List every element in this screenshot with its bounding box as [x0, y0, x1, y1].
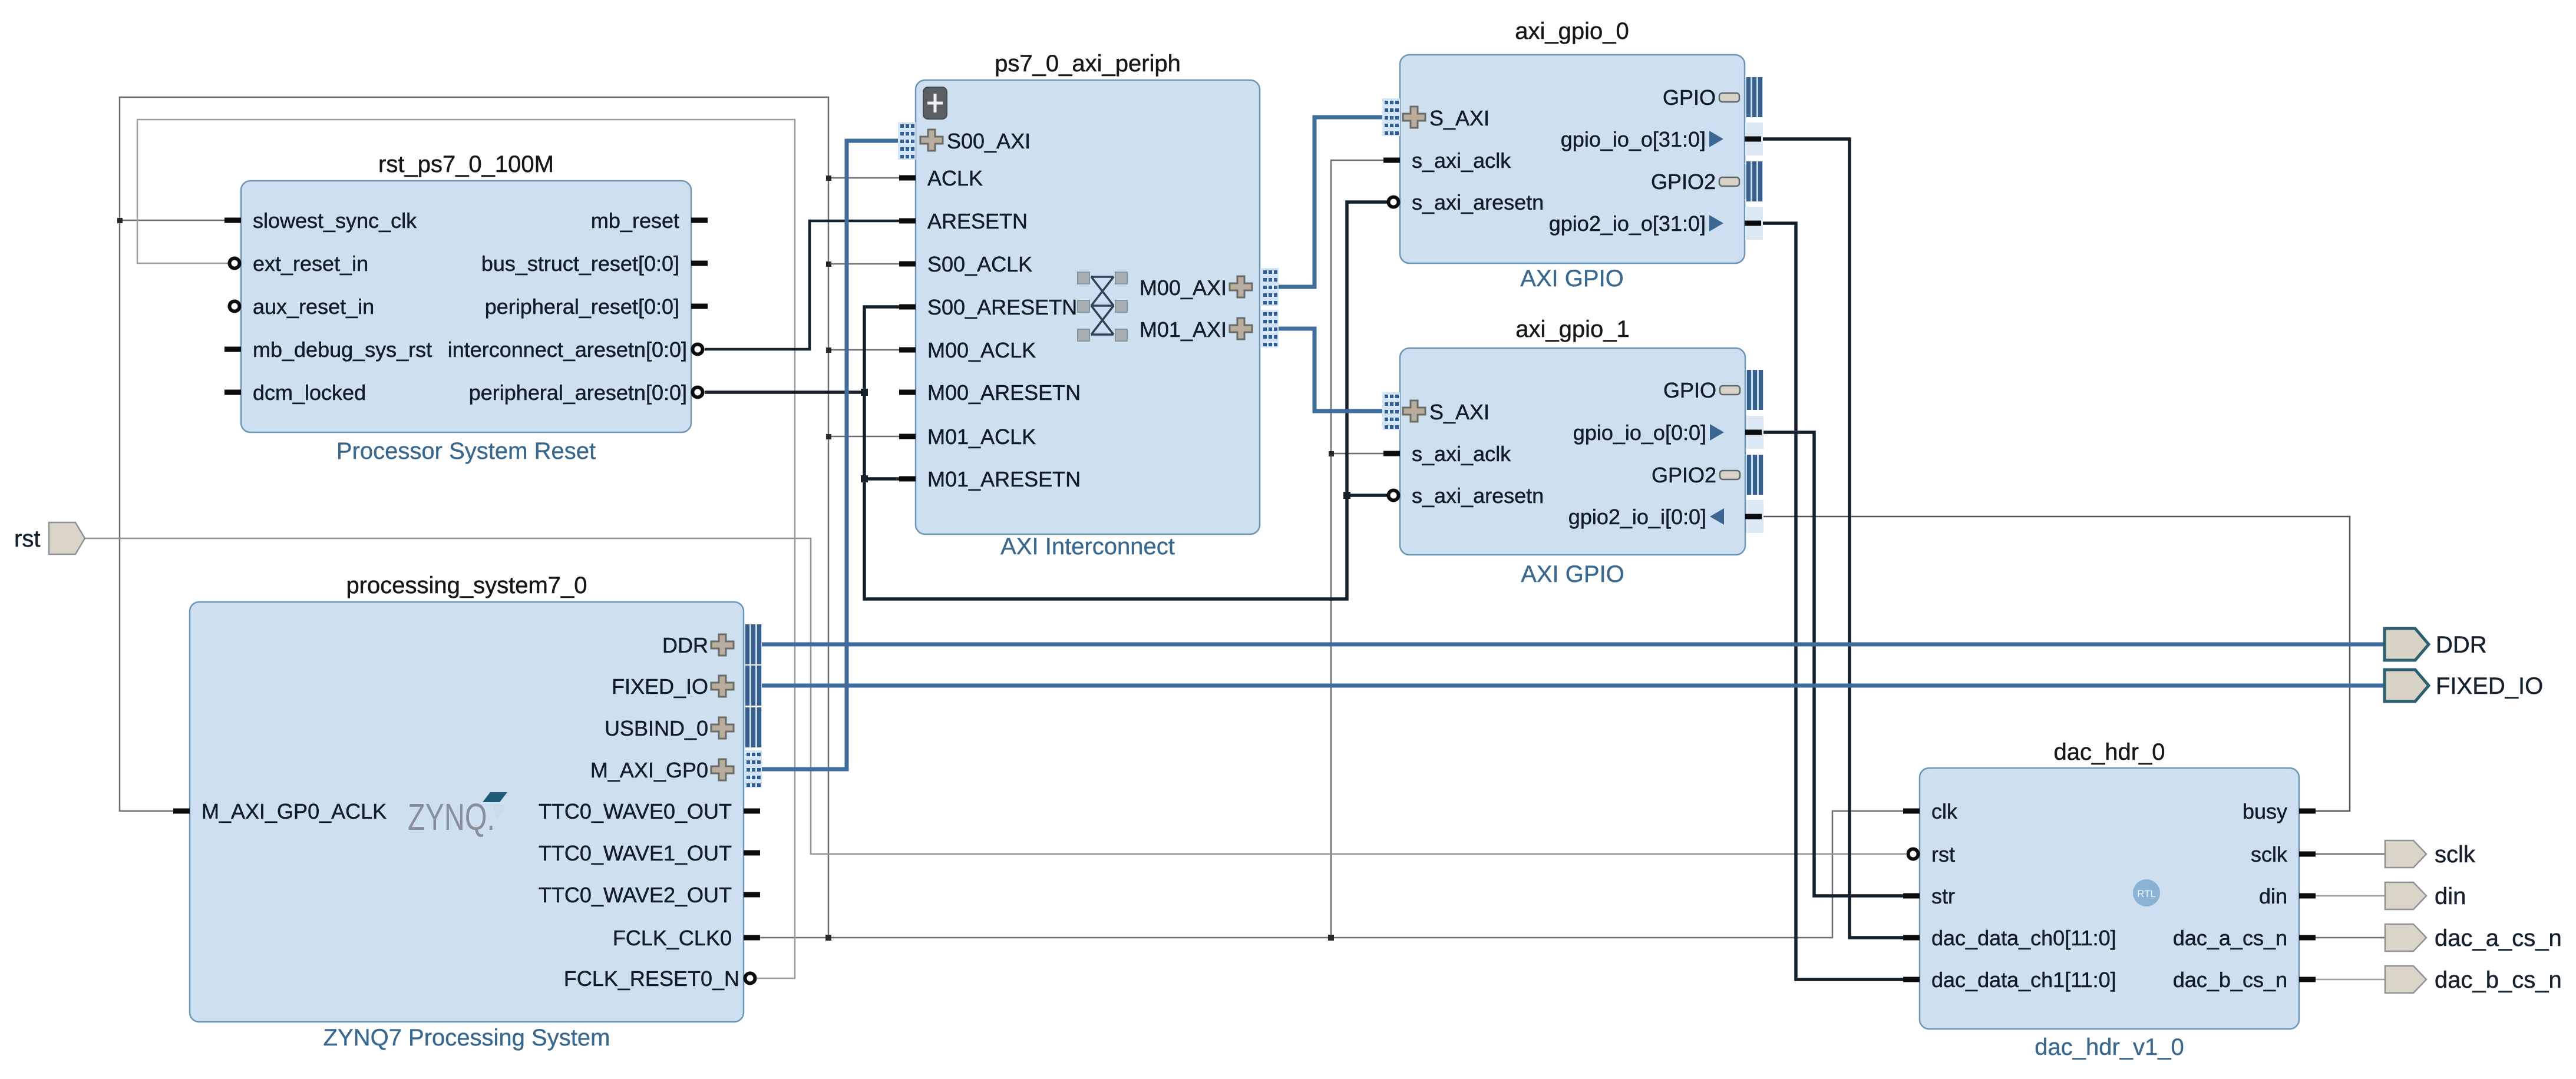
wire dac_b_cs_n: [2316, 979, 2385, 981]
svg-text:s_axi_aclk: s_axi_aclk: [1412, 442, 1511, 466]
port din: [2385, 882, 2466, 909]
svg-text:ARESETN: ARESETN: [927, 209, 1028, 233]
svg-text:GPIO: GPIO: [1663, 378, 1716, 402]
svg-text:gpio_io_o[31:0]: gpio_io_o[31:0]: [1561, 127, 1706, 151]
pin mb_debug_sys_rst: [224, 337, 432, 362]
pin dac_a_cs_n: [2173, 926, 2316, 950]
svg-text:peripheral_reset[0:0]: peripheral_reset[0:0]: [485, 294, 679, 319]
svg-text:dac_a_cs_n: dac_a_cs_n: [2435, 925, 2562, 951]
block axi_gpio_1 body: [1400, 316, 1745, 587]
pin axi_gpio_1 GPIO2: [1652, 455, 1763, 495]
pin M_AXI_GP0_ACLK: [173, 799, 387, 823]
pin FCLK_CLK0: [613, 926, 760, 950]
pin axi_gpio_1 gpio_io_o[0:0]: [1573, 416, 1763, 449]
wire gpio_io_o[31:0] to dac_data_ch0 net: [1745, 139, 1903, 938]
svg-text:S00_AXI: S00_AXI: [947, 129, 1031, 153]
svg-text:FIXED_IO: FIXED_IO: [2436, 673, 2543, 699]
pin M00_ARESETN: [899, 380, 1081, 405]
svg-text:mb_debug_sys_rst: mb_debug_sys_rst: [253, 337, 432, 362]
pin TTC0_WAVE1_OUT: [539, 841, 760, 865]
button plus ps7_0_axi_periph: [923, 87, 947, 119]
svg-text:peripheral_aresetn[0:0]: peripheral_aresetn[0:0]: [469, 380, 687, 405]
wire gpio2_io_o[31:0] to dac_data_ch1 net: [1745, 223, 1903, 979]
svg-text:M00_ACLK: M00_ACLK: [927, 338, 1036, 362]
svg-text:AXI GPIO: AXI GPIO: [1521, 561, 1624, 587]
pin peripheral_reset[0:0]: [485, 294, 708, 319]
svg-text:interconnect_aresetn[0:0]: interconnect_aresetn[0:0]: [448, 337, 687, 362]
block dac_hdr_0 body: [1920, 739, 2299, 1060]
pin interconnect_aresetn[0:0]: [448, 337, 703, 362]
pin dac str: [1903, 884, 1955, 908]
pin TTC0_WAVE0_OUT: [539, 799, 760, 823]
svg-text:S_AXI: S_AXI: [1429, 106, 1490, 130]
wire gpio_io_o[0:0] to str net: [1746, 432, 1903, 896]
port DDR: [2385, 628, 2487, 660]
svg-text:gpio2_io_i[0:0]: gpio2_io_i[0:0]: [1568, 505, 1706, 529]
svg-text:busy: busy: [2243, 799, 2287, 823]
pin dac rst: [1908, 842, 1956, 866]
svg-text:gpio_io_o[0:0]: gpio_io_o[0:0]: [1573, 421, 1706, 445]
wire rst net: [85, 538, 1906, 854]
svg-text:rst: rst: [1931, 842, 1955, 866]
svg-text:DDR: DDR: [662, 633, 708, 657]
svg-text:RTL: RTL: [2137, 888, 2156, 899]
wire FCLK_CLK0 clock net: [120, 97, 1903, 938]
svg-text:dac_b_cs_n: dac_b_cs_n: [2173, 968, 2287, 992]
pin S00_ARESETN: [899, 295, 1077, 319]
pin M_AXI_GP0: [590, 750, 762, 788]
svg-text:rst_ps7_0_100M: rst_ps7_0_100M: [378, 151, 554, 177]
svg-text:M01_ARESETN: M01_ARESETN: [927, 467, 1081, 491]
svg-text:dac_b_cs_n: dac_b_cs_n: [2435, 967, 2562, 993]
svg-text:sclk: sclk: [2251, 842, 2288, 866]
pin M01_AXI: [1140, 310, 1279, 347]
svg-text:FCLK_RESET0_N: FCLK_RESET0_N: [564, 967, 739, 991]
svg-text:s_axi_aresetn: s_axi_aresetn: [1412, 190, 1544, 214]
svg-text:rst: rst: [14, 526, 40, 552]
svg-text:FCLK_CLK0: FCLK_CLK0: [613, 926, 732, 950]
bus DDR: [762, 643, 2385, 647]
svg-text:AXI GPIO: AXI GPIO: [1520, 266, 1624, 292]
svg-text:dac_hdr_v1_0: dac_hdr_v1_0: [2035, 1034, 2184, 1060]
pin S00_ACLK: [899, 252, 1032, 276]
pin axi_gpio_0 GPIO: [1663, 77, 1763, 117]
wire peripheral_aresetn net: [705, 202, 1387, 599]
pin axi_gpio_1 s_axi_aresetn: [1389, 484, 1544, 508]
bus M_AXI_GP0 to S00_AXI: [762, 141, 899, 769]
pin ARESETN: [899, 209, 1028, 233]
pin dac din: [2259, 884, 2316, 908]
logo ZYNQ: [408, 792, 507, 838]
port FIXED_IO: [2385, 670, 2543, 701]
pin mb_reset: [591, 208, 708, 233]
wire dac_a_cs_n: [2316, 937, 2385, 939]
svg-text:ps7_0_axi_periph: ps7_0_axi_periph: [995, 51, 1181, 77]
svg-text:sclk: sclk: [2435, 842, 2476, 868]
svg-text:AXI Interconnect: AXI Interconnect: [1000, 534, 1175, 560]
svg-text:str: str: [1931, 884, 1955, 908]
pin dac_data_ch0[11:0]: [1903, 926, 2116, 950]
svg-text:M_AXI_GP0_ACLK: M_AXI_GP0_ACLK: [202, 799, 387, 823]
port dac_a_cs_n: [2385, 924, 2562, 951]
block ps7_0_axi_periph body: [916, 51, 1260, 560]
svg-text:s_axi_aresetn: s_axi_aresetn: [1412, 484, 1544, 508]
svg-text:axi_gpio_0: axi_gpio_0: [1515, 18, 1629, 44]
pin slowest_sync_clk: [224, 208, 417, 233]
icon RTL: [2133, 879, 2160, 906]
wire busy to gpio2_io_i net: [1762, 517, 2350, 811]
svg-text:GPIO2: GPIO2: [1651, 170, 1716, 194]
pin axi_gpio_1 GPIO: [1663, 370, 1763, 410]
svg-text:S_AXI: S_AXI: [1429, 400, 1490, 424]
pin FCLK_RESET0_N: [564, 967, 755, 991]
pin dac_b_cs_n: [2173, 968, 2316, 992]
svg-text:clk: clk: [1931, 799, 1958, 823]
pin dac sclk: [2251, 842, 2316, 866]
port dac_b_cs_n: [2385, 966, 2562, 993]
wire FCLK_RESET0_N to ext_reset_in net: [137, 120, 795, 978]
pin axi_gpio_0 s_axi_aresetn: [1389, 190, 1544, 214]
pin dcm_locked: [224, 380, 366, 405]
pin axi_gpio_0 s_axi_aclk: [1383, 148, 1511, 173]
pin axi_gpio_0 gpio_io_o[31:0]: [1561, 123, 1763, 155]
svg-text:dac_a_cs_n: dac_a_cs_n: [2173, 926, 2287, 950]
svg-text:S00_ARESETN: S00_ARESETN: [927, 295, 1077, 319]
svg-text:din: din: [2259, 884, 2287, 908]
bus FIXED_IO: [762, 684, 2385, 688]
svg-text:dac_data_ch0[11:0]: dac_data_ch0[11:0]: [1931, 926, 2116, 950]
svg-text:FIXED_IO: FIXED_IO: [612, 674, 708, 699]
wire interconnect_aresetn net: [705, 221, 899, 349]
svg-text:S00_ACLK: S00_ACLK: [927, 252, 1032, 276]
bus M01_AXI to axi_gpio_1 S_AXI: [1279, 329, 1383, 411]
svg-text:TTC0_WAVE0_OUT: TTC0_WAVE0_OUT: [539, 799, 732, 823]
pin axi_gpio_1 s_axi_aclk: [1383, 442, 1511, 466]
svg-text:slowest_sync_clk: slowest_sync_clk: [253, 208, 417, 233]
svg-text:gpio2_io_o[31:0]: gpio2_io_o[31:0]: [1549, 211, 1706, 236]
pin peripheral_aresetn[0:0]: [469, 380, 703, 405]
pin aux_reset_in: [230, 294, 375, 319]
pin DDR: [662, 624, 762, 664]
svg-text:dcm_locked: dcm_locked: [253, 380, 366, 405]
junction dots clock net: [117, 176, 1334, 941]
pin TTC0_WAVE2_OUT: [539, 883, 760, 907]
svg-text:dac_data_ch1[11:0]: dac_data_ch1[11:0]: [1931, 968, 2116, 992]
wire sclk: [2316, 853, 2385, 855]
pin axi_gpio_1 gpio2_io_i[0:0]: [1568, 500, 1763, 533]
pin ext_reset_in: [230, 251, 369, 276]
block axi_gpio_0 body: [1400, 18, 1745, 292]
pin S00_AXI: [898, 122, 1031, 160]
svg-text:processing_system7_0: processing_system7_0: [346, 572, 587, 598]
port rst: [14, 522, 85, 554]
pin axi_gpio_0 S_AXI: [1382, 98, 1490, 136]
pin dac clk: [1903, 799, 1958, 823]
pin USBIND_0: [605, 707, 762, 747]
svg-text:dac_hdr_0: dac_hdr_0: [2053, 739, 2165, 765]
pin dac busy: [2243, 799, 2316, 823]
svg-text:s_axi_aclk: s_axi_aclk: [1412, 148, 1511, 173]
svg-text:M00_AXI: M00_AXI: [1140, 276, 1227, 300]
svg-text:M01_AXI: M01_AXI: [1140, 317, 1227, 342]
pin M00_ACLK: [899, 338, 1036, 362]
svg-text:Processor System Reset: Processor System Reset: [336, 438, 596, 464]
svg-text:GPIO: GPIO: [1663, 85, 1716, 110]
svg-text:aux_reset_in: aux_reset_in: [253, 294, 374, 319]
pin axi_gpio_0 gpio2_io_o[31:0]: [1549, 207, 1763, 240]
port sclk: [2385, 840, 2476, 868]
svg-text:M01_ACLK: M01_ACLK: [927, 425, 1036, 449]
svg-text:ext_reset_in: ext_reset_in: [253, 251, 368, 276]
svg-text:ACLK: ACLK: [927, 166, 983, 190]
svg-text:USBIND_0: USBIND_0: [605, 716, 708, 740]
svg-text:din: din: [2435, 883, 2466, 909]
pin M01_ACLK: [899, 425, 1036, 449]
pin axi_gpio_0 GPIO2: [1651, 161, 1763, 201]
block processing_system7_0 body: [190, 572, 744, 1051]
svg-text:M00_ARESETN: M00_ARESETN: [927, 380, 1081, 405]
svg-text:TTC0_WAVE2_OUT: TTC0_WAVE2_OUT: [539, 883, 732, 907]
svg-text:TTC0_WAVE1_OUT: TTC0_WAVE1_OUT: [539, 841, 732, 865]
pin dac_data_ch1[11:0]: [1903, 968, 2116, 992]
svg-text:ZYNQ7 Processing System: ZYNQ7 Processing System: [323, 1025, 610, 1051]
svg-text:M_AXI_GP0: M_AXI_GP0: [590, 758, 708, 782]
block rst_ps7_0_100M body: [241, 151, 691, 464]
pin bus_struct_reset[0:0]: [481, 251, 708, 276]
svg-text:GPIO2: GPIO2: [1652, 463, 1716, 487]
junction dots peripheral_aresetn net: [861, 389, 1350, 499]
pin axi_gpio_1 S_AXI: [1382, 392, 1490, 430]
svg-text:bus_struct_reset[0:0]: bus_struct_reset[0:0]: [481, 251, 679, 276]
bus M00_AXI to axi_gpio_0 S_AXI: [1279, 117, 1383, 287]
wire din: [2316, 895, 2385, 897]
pin ACLK: [899, 166, 983, 190]
svg-text:mb_reset: mb_reset: [591, 208, 679, 233]
pin M00_AXI: [1140, 268, 1279, 306]
pin FIXED_IO: [612, 666, 762, 706]
svg-text:ZYNQ.: ZYNQ.: [408, 796, 495, 838]
icon crossbar: [1078, 272, 1127, 341]
svg-text:DDR: DDR: [2436, 632, 2487, 658]
svg-text:axi_gpio_1: axi_gpio_1: [1515, 316, 1630, 342]
pin M01_ARESETN: [899, 467, 1081, 491]
